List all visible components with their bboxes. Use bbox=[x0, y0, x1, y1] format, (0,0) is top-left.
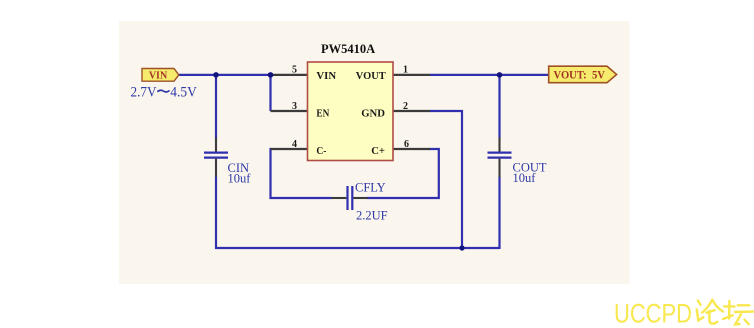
junction dot GND/bottom rail bbox=[459, 245, 464, 250]
svg-text:GND: GND bbox=[361, 108, 385, 120]
wire C+ elbow (CFLY right up to pin 6) bbox=[367, 149, 439, 198]
wire CIN top (junction A down to CIN) bbox=[215, 75, 217, 139]
wire COUT top (VOUT junction down to COUT) bbox=[498, 75, 500, 139]
junction dot B (VIN/EN) bbox=[268, 72, 274, 78]
wire C- elbow (pin 4 left, down, right to CFLY) bbox=[271, 149, 332, 198]
port VOUT bbox=[549, 66, 617, 83]
wire VOUT junction to VOUT port bbox=[500, 74, 550, 76]
wire EN drop (junction B down to pin 3 row) bbox=[269, 75, 271, 111]
wire GND elbow (pin 2 right and down to rail) bbox=[430, 111, 463, 248]
svg-text:2.2UF: 2.2UF bbox=[356, 209, 388, 223]
svg-text:4: 4 bbox=[292, 139, 297, 150]
hanzi TAN (earth radical) bbox=[723, 301, 753, 324]
capacitor CFLY bbox=[332, 186, 368, 210]
svg-text:2.7V: 2.7V bbox=[131, 84, 157, 100]
pin 4 stub bbox=[271, 148, 309, 150]
svg-text:PW5410A: PW5410A bbox=[321, 42, 375, 56]
svg-text:10uf: 10uf bbox=[513, 171, 537, 185]
svg-text:6: 6 bbox=[404, 139, 409, 150]
wire VIN port to junction A bbox=[179, 74, 216, 76]
svg-text:10uf: 10uf bbox=[228, 172, 252, 186]
pin 6 stub bbox=[393, 148, 431, 150]
svg-text:2: 2 bbox=[403, 101, 408, 112]
svg-text:VIN: VIN bbox=[149, 70, 168, 81]
svg-text:5: 5 bbox=[292, 65, 297, 76]
watermark UCCPD forum logo bbox=[614, 299, 753, 328]
svg-text:VOUT: 5V: VOUT: 5V bbox=[554, 70, 606, 82]
pin 2 stub bbox=[393, 110, 431, 112]
svg-text:UCCPD: UCCPD bbox=[614, 299, 692, 328]
svg-text:4.5V: 4.5V bbox=[170, 84, 197, 100]
pin 5 stub bbox=[271, 74, 309, 76]
port VIN bbox=[142, 69, 179, 82]
svg-text:VIN: VIN bbox=[316, 70, 336, 82]
svg-text:EN: EN bbox=[316, 108, 329, 120]
hanzi LUN (speech radical) bbox=[697, 300, 723, 324]
svg-text:C-: C- bbox=[316, 145, 326, 157]
schematic sheet background bbox=[119, 21, 630, 284]
svg-text:3: 3 bbox=[292, 101, 297, 112]
wire COUT bottom up from rail bbox=[498, 177, 500, 250]
svg-text:C+: C+ bbox=[371, 145, 385, 157]
IC U1 PW5410A body bbox=[308, 62, 394, 161]
pin 3 stub bbox=[271, 110, 309, 112]
pin 1 stub bbox=[393, 74, 431, 76]
svg-text:1: 1 bbox=[403, 65, 408, 76]
wire CIN bottom down to rail bbox=[215, 177, 217, 250]
svg-text:VOUT: VOUT bbox=[356, 70, 387, 82]
wire bottom rail bbox=[215, 247, 500, 249]
svg-text:CFLY: CFLY bbox=[355, 181, 386, 195]
wire junction A to junction B bbox=[216, 74, 271, 76]
wire pin 1 to VOUT junction bbox=[430, 74, 500, 76]
capacitor CIN bbox=[204, 138, 228, 178]
junction dot A (VIN/CIN) bbox=[213, 72, 219, 78]
label VIN voltage range bbox=[131, 84, 197, 100]
junction dot VOUT/COUT bbox=[497, 72, 503, 78]
capacitor COUT bbox=[488, 138, 512, 178]
